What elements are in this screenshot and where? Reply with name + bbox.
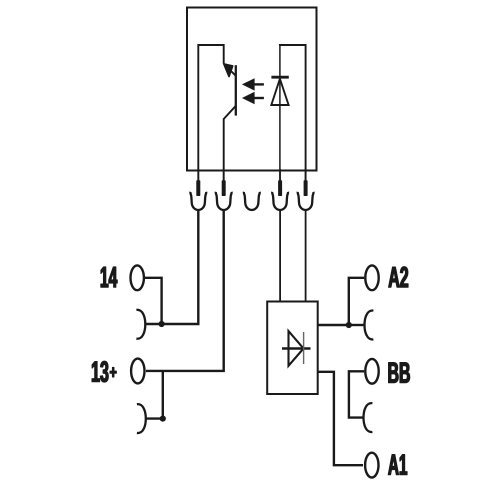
- label A2: [389, 267, 408, 287]
- diode D2 cathode bar: [303, 332, 305, 364]
- test socket arc A2: [365, 311, 374, 340]
- label 14: [101, 267, 117, 287]
- pin stub 5: [305, 169, 307, 181]
- socket 1: [190, 192, 206, 210]
- wire: 14 circle to junction: [145, 278, 162, 322]
- pin stub 1: [197, 169, 199, 181]
- terminal A1 circle: [365, 453, 378, 478]
- terminal 13+ circle: [131, 359, 144, 384]
- junction dot 14: [159, 321, 165, 327]
- pin stub 4: [279, 169, 281, 181]
- wire: box to A2 junction: [318, 324, 349, 326]
- wire: socket5 down to module box: [305, 210, 307, 302]
- wire: socket1 down to 14 line: [146, 210, 198, 324]
- pin stub 2: [223, 169, 225, 181]
- transistor Q1 collector diagonal: [225, 65, 236, 76]
- wire: box down to A1: [318, 372, 364, 465]
- wire: socket2 down to 13+ line: [146, 210, 224, 371]
- optocoupler U1 outer box: [187, 8, 317, 171]
- terminal A2 circle: [365, 265, 378, 290]
- junction dot A2: [346, 322, 352, 328]
- socket 2: [216, 192, 232, 210]
- wire: socket4 down to module box: [279, 210, 281, 302]
- label BB: [389, 363, 410, 383]
- test socket arc BB: [364, 403, 373, 432]
- wire: left hook of phototransistor (collector lead): [198, 45, 223, 181]
- pin 5 bar: [304, 180, 308, 196]
- socket 4: [272, 192, 288, 210]
- label A1: [388, 455, 407, 475]
- pin 1 bar: [196, 180, 200, 196]
- diode D2 anode line: [282, 347, 311, 350]
- pin 2 bar: [222, 180, 226, 196]
- terminal BB circle: [365, 359, 378, 384]
- wire: transistor lower lead to pin 2: [223, 119, 225, 182]
- module box (protection diode): [267, 302, 318, 395]
- socket 3 (empty): [244, 192, 260, 210]
- test socket arc 14: [136, 310, 145, 339]
- pin 4 bar: [278, 180, 282, 196]
- wire: BB circle to BB arc: [349, 371, 364, 417]
- test socket arc 13+: [137, 404, 146, 433]
- label 13+: [92, 361, 116, 382]
- LED D1 triangle: [271, 79, 288, 105]
- socket 5: [298, 192, 314, 210]
- light arrow 2: [242, 92, 264, 104]
- wire: LED branch vertical: [279, 45, 281, 181]
- LED D1 cathode bar: [271, 76, 288, 79]
- transistor Q1 emitter arrow head: [224, 64, 233, 76]
- wire: 13+ branch down to arc junction: [147, 371, 163, 419]
- wire: junction to A2 arc: [349, 324, 365, 326]
- transistor Q1 lower lead diagonal: [224, 106, 236, 119]
- terminal 14 circle: [131, 265, 144, 290]
- wire: right hook to pin 5: [280, 45, 306, 181]
- wire: junction up to A2 circle: [349, 278, 364, 325]
- transistor Q1 body bar: [235, 65, 237, 115]
- junction dot 13+: [160, 416, 166, 422]
- light arrow 1: [242, 78, 264, 90]
- diode D2 triangle: [289, 331, 304, 366]
